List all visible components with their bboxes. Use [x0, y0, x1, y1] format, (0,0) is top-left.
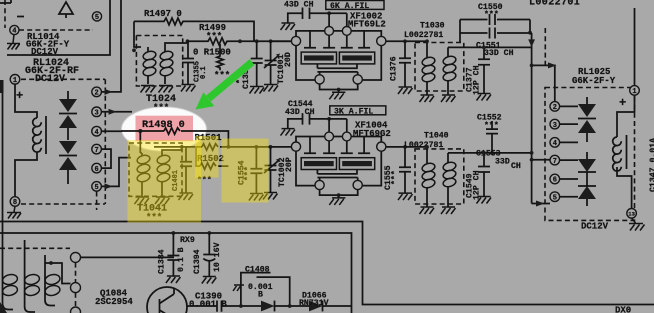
wire via A to C1384	[81, 256, 175, 258]
resistor R1497	[134, 18, 254, 41]
pin 1 relay RL1024	[10, 75, 20, 85]
wire R1501 row	[154, 146, 291, 148]
svg-text:T1040: T1040	[424, 132, 449, 141]
capacitor C1552	[486, 121, 498, 153]
T1024 primary winding	[147, 47, 149, 52]
svg-text:8: 8	[13, 199, 17, 207]
svg-text:3K A.FIL: 3K A.FIL	[334, 107, 373, 116]
node C1408 left	[239, 304, 243, 308]
svg-text:2: 2	[553, 104, 557, 112]
T1030 primary winding	[426, 41, 428, 58]
node C1555	[403, 145, 407, 149]
varistor diode pair D-b	[59, 141, 77, 154]
wire collector row	[187, 305, 352, 307]
svg-text:4: 4	[94, 129, 98, 137]
node T1030 primary tap	[425, 39, 429, 43]
capacitor C1401	[180, 147, 192, 193]
label box 3K A.FIL	[330, 106, 386, 115]
RL1025 pin 1	[630, 86, 640, 96]
ground C1355	[181, 85, 196, 92]
wire T1030 output row	[448, 46, 532, 48]
varistor diode pair D-d	[578, 159, 596, 172]
ground T1030 secondary	[441, 95, 456, 102]
main wire 6K row with resistor R1499	[188, 38, 291, 45]
svg-text:+: +	[619, 96, 626, 110]
contact bar	[17, 16, 24, 18]
wire R1497 input drop	[134, 21, 141, 47]
T1024 shield dashed box	[136, 36, 182, 87]
scan corner blob	[0, 302, 7, 313]
node C1554	[255, 145, 259, 149]
svg-text:33D: 33D	[495, 158, 510, 167]
svg-text:C1394: C1394	[193, 249, 202, 274]
svg-text:RX9: RX9	[180, 236, 195, 245]
RL1025 pin 4	[550, 138, 560, 148]
ground C1356	[250, 87, 265, 94]
dashed connector line bottom left	[0, 247, 70, 249]
wire 3K filter output	[386, 146, 427, 148]
filter coupling bus	[317, 64, 357, 75]
node winding tap	[49, 261, 53, 265]
T1040 secondary winding	[447, 153, 449, 163]
crystal element 2	[339, 52, 374, 64]
ground C1377	[477, 94, 492, 101]
arrow on pin3 wire	[109, 109, 117, 115]
T1030 secondary winding	[447, 47, 449, 57]
bus wire to relay	[530, 33, 550, 204]
node C1376	[403, 39, 407, 43]
ground T1030 primary	[420, 95, 435, 102]
node R1497 drop	[132, 48, 136, 52]
node bus contact	[530, 64, 534, 68]
wire stub left edge top	[4, 0, 6, 28]
RL1025 pin 3	[550, 119, 560, 129]
dashed wire node4 to node5	[19, 29, 93, 31]
diode D1066	[309, 301, 323, 312]
svg-text:13: 13	[628, 211, 635, 218]
svg-text:0.1: 0.1	[200, 66, 208, 79]
wire long bus lower	[0, 233, 352, 313]
dashed link B-C	[75, 293, 77, 307]
wire pin4 row through ellipse	[121, 131, 228, 147]
arrow on contact wire	[548, 62, 557, 68]
connector via C	[71, 307, 81, 313]
relay RL1025 dashed box	[545, 88, 635, 221]
node TC1001 junction	[269, 39, 273, 43]
filter terminal circles	[291, 36, 300, 45]
filter bottom rail	[320, 84, 358, 90]
node T1040 primary tap	[425, 145, 429, 149]
node R1501-R1502	[227, 145, 231, 149]
arrow on pin5 wire	[105, 183, 113, 189]
node R1497 junction	[255, 39, 259, 43]
node C1543	[327, 11, 331, 15]
capacitor C1394 electrolytic	[203, 233, 215, 276]
transformer winding W3	[45, 255, 55, 306]
capacitor C1355 stem	[187, 41, 189, 58]
contact pin 6	[92, 163, 102, 173]
wire pin7 to pin6 link	[101, 149, 111, 168]
wire pin5 to T1041 input	[101, 158, 131, 187]
wire stub top left corner	[0, 0, 11, 3]
wire pin3 into ellipse	[101, 111, 132, 113]
connector via A	[71, 252, 81, 262]
dashed top line relay RL1024	[21, 78, 105, 80]
capacitor C1555	[399, 147, 411, 193]
mechanical filter XF1002	[291, 13, 386, 99]
T1040 primary winding	[426, 147, 428, 164]
node C1394 top	[207, 231, 211, 235]
arrow on pin2 wire	[105, 89, 113, 95]
filter frame rails	[296, 31, 381, 80]
wire pin1 riser	[634, 8, 636, 86]
varistor diode pair D-c	[578, 104, 596, 117]
RL1025 pin 13	[627, 209, 637, 219]
ground C1394	[202, 277, 217, 284]
svg-text:5: 5	[553, 194, 557, 202]
node C1384 top	[172, 231, 176, 235]
trimmer capacitor TC1001	[264, 56, 278, 84]
svg-text:5: 5	[95, 14, 99, 22]
svg-text:RN731V: RN731V	[299, 299, 329, 308]
svg-text:5: 5	[94, 184, 98, 192]
node T1024 out	[186, 39, 190, 43]
highlight pink box R1498	[136, 116, 194, 142]
ground TC1001	[264, 85, 279, 92]
svg-text:12P CH: 12P CH	[473, 170, 482, 200]
dashed stub below pin 5	[96, 192, 98, 211]
svg-text:***: ***	[484, 9, 499, 19]
resistor R1502	[200, 163, 228, 169]
trimmer TC1001 stem	[270, 41, 272, 60]
node bus bottom	[530, 151, 534, 155]
svg-text:6: 6	[94, 166, 98, 174]
filter electrode stubs	[304, 31, 370, 48]
T1024 secondary winding	[164, 47, 166, 52]
highlight yellow region T1041	[128, 140, 202, 223]
contact pin 4	[92, 126, 102, 136]
resistor R1500 vertical	[217, 44, 223, 70]
diode D1065	[261, 301, 275, 312]
dashed right edge relay RL1024	[104, 79, 106, 204]
node C1550 out	[528, 31, 532, 35]
wire into 6K filter	[271, 40, 291, 42]
transformer winding W2	[25, 240, 35, 312]
svg-text:DC12V: DC12V	[581, 222, 609, 232]
dashed link A-B	[75, 263, 77, 283]
trimmer capacitor TC1002	[264, 147, 278, 192]
ground T1041 secondary	[155, 197, 170, 204]
ground T1040 secondary	[441, 207, 456, 214]
highlight yellow region R1501 R1502	[195, 136, 219, 178]
svg-text:0.1 B: 0.1 B	[177, 247, 186, 272]
RL1025 pin 7	[550, 155, 560, 165]
svg-text:3: 3	[553, 122, 557, 130]
contact pin 3	[92, 107, 102, 117]
pin 4	[10, 25, 19, 34]
svg-text:0 R1500: 0 R1500	[193, 48, 231, 58]
ground under pin 4	[7, 35, 20, 50]
highlight ellipse	[122, 107, 207, 151]
annotation green arrow	[196, 62, 253, 110]
svg-text:MFT69L2: MFT69L2	[348, 19, 386, 29]
svg-text:C1408: C1408	[245, 266, 270, 275]
ground C1544	[281, 129, 296, 136]
svg-text:CH: CH	[511, 162, 521, 171]
pin 5	[92, 12, 101, 21]
C1550 side links	[460, 20, 530, 43]
ground C1401	[179, 193, 194, 200]
svg-text:1: 1	[13, 77, 17, 85]
ground T1040 primary	[420, 207, 435, 214]
svg-text:4: 4	[12, 28, 16, 36]
contact pin 5	[92, 182, 102, 192]
svg-text:4: 4	[553, 140, 557, 148]
node bus pin7	[530, 158, 534, 162]
RL1025 contact stubs	[560, 106, 578, 196]
edge smudge	[0, 80, 4, 93]
crystal element 1	[301, 52, 336, 64]
ground T1024 secondary	[159, 86, 174, 93]
ground C1549	[477, 197, 492, 204]
dashed bottom line relay RL1024	[21, 203, 105, 205]
svg-text:+: +	[16, 89, 23, 103]
node T1041 out	[180, 145, 184, 149]
arrow down on bus	[528, 39, 535, 47]
coil core bar	[45, 116, 47, 154]
svg-text:7: 7	[94, 147, 98, 155]
capacitor C1554	[250, 147, 262, 193]
relay armature contact triangle	[59, 2, 73, 18]
svg-text:6: 6	[553, 177, 557, 185]
ground TC1002	[263, 193, 278, 200]
svg-text:T1030: T1030	[420, 22, 445, 31]
wire T1041 secondary out	[162, 147, 182, 153]
relay coil RL1024	[33, 118, 42, 152]
contact pin 7	[92, 144, 102, 154]
wire T1024 secondary to node	[165, 41, 188, 47]
T1041 primary winding	[140, 153, 142, 156]
svg-text:L0022701: L0022701	[529, 0, 580, 9]
node C1377	[482, 46, 486, 50]
ground C1543	[281, 23, 296, 30]
ground C1555	[398, 193, 413, 200]
capacitor C1377	[478, 47, 490, 93]
relay RL1014 enclosure box	[7, 0, 110, 55]
node C1552	[490, 151, 494, 155]
relay coil RL1025 feed	[617, 95, 635, 208]
capacitor C1550 upper	[460, 14, 530, 25]
node TC1002	[269, 145, 273, 149]
node C1549	[482, 151, 486, 155]
node R1498	[138, 129, 142, 133]
RL1025 pin 2	[550, 102, 560, 112]
svg-text:6K A.FIL: 6K A.FIL	[330, 2, 369, 11]
ground T1024 primary	[141, 86, 156, 93]
label box 6K A.FIL	[326, 1, 384, 10]
resistor R1502 link	[196, 147, 200, 166]
wire pin2 riser to top	[101, 0, 121, 92]
node C1356 junction	[238, 39, 242, 43]
capacitor C1390 series	[217, 301, 222, 312]
T1040 shield dashed box	[415, 149, 464, 204]
svg-text:20P: 20P	[285, 157, 294, 172]
resistor R1498	[164, 128, 180, 134]
RL1025 pin 6	[550, 174, 560, 184]
RL1025 pin 5	[550, 192, 560, 202]
svg-text:2: 2	[94, 90, 98, 98]
wire 6K filter output	[386, 40, 427, 42]
ground under pin 8	[7, 206, 21, 218]
wire bus to contact 2	[532, 65, 555, 101]
arrow to pin 5	[536, 201, 545, 207]
left edge vertical wire	[2, 92, 4, 250]
capacitor C1544	[288, 113, 329, 128]
capacitor C1549	[478, 153, 490, 196]
filter ground tap	[337, 88, 341, 92]
node C1544	[327, 117, 331, 121]
svg-text:10 16V: 10 16V	[213, 242, 222, 272]
svg-text:C1347 0.01A: C1347 0.01A	[649, 138, 654, 192]
svg-text:DC12V: DC12V	[31, 47, 59, 57]
T1041 shield dashed box	[129, 143, 182, 196]
ground C1376	[398, 87, 413, 94]
wire long bus upper	[0, 222, 654, 305]
highlight yellow region C1554 TC1002	[222, 139, 269, 203]
svg-text:2SC2954: 2SC2954	[95, 297, 133, 307]
svg-text:7: 7	[553, 158, 557, 166]
svg-text:L0022781: L0022781	[404, 31, 443, 40]
ground C1384	[166, 276, 181, 283]
svg-text:C1376: C1376	[390, 56, 399, 81]
contact pin 2	[92, 87, 102, 97]
wire T1040 output row	[448, 152, 532, 154]
capacitor C1376	[399, 41, 411, 86]
svg-text:C1384: C1384	[158, 249, 167, 274]
filter top link wire	[329, 13, 347, 26]
svg-text:B: B	[258, 291, 263, 300]
small ground C1408	[233, 285, 244, 291]
pin 8 relay RL1024	[10, 197, 20, 207]
svg-text:1: 1	[632, 88, 636, 96]
relay coil RL1025	[613, 137, 622, 171]
wire drop to T1041	[139, 131, 141, 153]
T1041 secondary winding	[161, 153, 163, 156]
RL1025 coil core bar	[626, 135, 628, 169]
transistor Q1084	[147, 287, 187, 313]
capacitor C1356 stem	[256, 41, 258, 58]
capacitor C1384	[167, 233, 179, 276]
svg-text:***: ***	[390, 170, 400, 185]
transformer winding W1	[3, 250, 14, 310]
mechanical filter XF1004	[291, 119, 386, 205]
svg-text:33D CH: 33D CH	[484, 49, 514, 58]
svg-text:R1497 0: R1497 0	[144, 9, 182, 19]
capacitor C1408	[241, 273, 290, 306]
dashed boundary line	[544, 28, 546, 67]
coil RL1024 feed wires	[15, 84, 37, 197]
node C1408 right	[288, 304, 292, 308]
ground under pin 13	[629, 218, 645, 230]
svg-text:DX0: DX0	[615, 306, 631, 313]
svg-text:0.001 B: 0.001 B	[189, 300, 227, 310]
ground T1041 primary	[135, 197, 150, 204]
capacitor C1550 lower	[460, 28, 530, 39]
svg-text:MFT69G2: MFT69G2	[353, 129, 391, 139]
wire pin4 to R1498	[101, 130, 140, 132]
svg-text:G6K-2F-Y: G6K-2F-Y	[572, 76, 616, 86]
resistor R1501	[202, 144, 218, 150]
svg-text:12P CH: 12P CH	[473, 65, 482, 95]
ground C1554	[249, 194, 264, 201]
varistor diode pair D-a	[59, 99, 77, 112]
capacitor C1543	[288, 8, 329, 23]
T1030 shield dashed box	[415, 43, 464, 92]
wire winding tap to via B	[45, 263, 71, 284]
capacitor C1355	[182, 59, 194, 85]
svg-text:20D: 20D	[284, 52, 293, 67]
svg-text:3: 3	[94, 110, 98, 118]
connector via B	[71, 283, 81, 293]
capacitor C1356	[251, 59, 263, 87]
